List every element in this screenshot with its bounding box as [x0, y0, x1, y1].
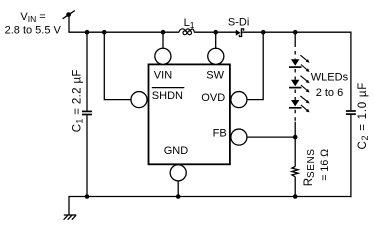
junction FB node — [293, 135, 298, 140]
pin OVD — [231, 92, 247, 108]
svg-text:S-Di: S-Di — [228, 17, 249, 29]
wire right branch lower — [350, 115, 352, 197]
junction SW pin — [213, 30, 218, 35]
wire LED string top solid — [294, 32, 296, 47]
svg-text:2 to 6: 2 to 6 — [316, 87, 344, 99]
LED D3 emission arrows — [300, 96, 309, 112]
LED D3 — [289, 100, 302, 108]
wire LED string dashed segment 2 — [294, 69, 296, 80]
junction OVD riser — [261, 30, 266, 35]
wire SW pin drop — [215, 32, 217, 48]
junction C1 branch — [85, 30, 90, 35]
junction VIN pin — [161, 30, 166, 35]
svg-text:VIN =: VIN = — [20, 11, 45, 24]
junction GND pin bottom — [176, 194, 181, 199]
svg-text:2.8 to 5.5 V: 2.8 to 5.5 V — [5, 25, 62, 37]
label WLEDs 2 to 6 — [311, 72, 349, 100]
ground — [64, 215, 77, 220]
LED D2 emission arrows — [300, 76, 309, 93]
LED D1 — [289, 59, 302, 67]
wire LED string bottom solid — [294, 122, 296, 167]
wire SHDN branch — [104, 32, 131, 100]
capacitor C1 branch wire upper — [86, 32, 88, 110]
svg-text:VIN: VIN — [154, 70, 172, 82]
wire bottom-left drop — [68, 196, 70, 215]
svg-text:OVD: OVD — [201, 92, 225, 104]
svg-text:RSENS: RSENS — [303, 149, 317, 187]
label VIN = 2.8 to 5.5 V — [5, 11, 62, 37]
wire top rail middle segment — [194, 31, 236, 33]
capacitor C2 — [346, 111, 356, 114]
inductor L1 — [179, 29, 194, 35]
wire GND pin drop — [177, 181, 179, 197]
pin SW — [208, 48, 224, 64]
svg-text:SW: SW — [206, 70, 224, 82]
wire LED string dashed segment 3 — [294, 90, 296, 101]
wire OVD to riser — [247, 32, 264, 99]
svg-text:C2 = 1.0 µF: C2 = 1.0 µF — [357, 82, 370, 150]
junction C1 bottom — [85, 194, 90, 199]
pin SHDN — [131, 92, 147, 108]
junction RSENS bottom — [293, 194, 298, 199]
wire bottom rail — [69, 196, 352, 198]
wire LED string dashed segment 4 — [294, 110, 296, 122]
junction SHDN branch — [102, 30, 107, 35]
svg-text:SHDN: SHDN — [152, 90, 183, 102]
svg-text:C1 = 2.2 µF: C1 = 2.2 µF — [72, 69, 85, 132]
capacitor C1 — [82, 111, 92, 114]
wire top rail right segment — [242, 31, 351, 33]
svg-text:L1: L1 — [184, 17, 195, 30]
pin label SHDN (active low) — [152, 88, 185, 102]
wire FB to LED string — [247, 136, 296, 138]
junction LED string top — [293, 30, 298, 35]
wire VIN terminal to top rail — [68, 15, 70, 32]
LED D1 emission arrows — [300, 55, 309, 72]
svg-text:FB: FB — [213, 128, 227, 140]
pin GND — [170, 165, 186, 181]
op-amp U1 IC body — [149, 64, 230, 164]
svg-text:GND: GND — [164, 145, 189, 157]
diode S-Di (schottky) — [236, 28, 244, 37]
svg-text:WLEDs: WLEDs — [311, 72, 349, 84]
svg-text:= 16 Ω: = 16 Ω — [319, 149, 331, 181]
pin VIN — [155, 48, 171, 64]
input terminal VIN — [63, 11, 75, 19]
wire top rail left segment — [68, 31, 179, 33]
pin FB — [231, 129, 247, 145]
wire LED string dashed segment 1 — [294, 51, 296, 59]
capacitor C1 branch wire lower — [86, 115, 88, 196]
wire right branch upper — [350, 32, 352, 111]
LED D2 — [289, 80, 302, 88]
wire RSENS to bottom rail — [294, 177, 296, 197]
resistor RSENS — [292, 167, 298, 177]
wire VIN pin drop — [162, 32, 164, 48]
